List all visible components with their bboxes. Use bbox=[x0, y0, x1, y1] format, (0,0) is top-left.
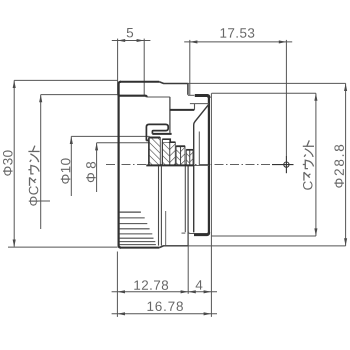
text 16.78 bbox=[148, 302, 183, 312]
tick left at x185 foot bbox=[182, 232, 186, 234]
text 12.78 bbox=[134, 280, 168, 290]
text 4 bbox=[196, 280, 203, 289]
underline tick bbox=[29, 200, 50, 202]
ring left face bbox=[119, 82, 121, 248]
male thread band bottom bbox=[194, 232, 209, 235]
flange face lower / interior vertical x188 bbox=[187, 166, 189, 246]
text φ10 bbox=[61, 158, 71, 183]
seat bold bbox=[170, 109, 194, 111]
lens element L3 bbox=[176, 146, 185, 165]
text φC mount bbox=[28, 146, 39, 206]
bore wall vertical bbox=[169, 97, 171, 133]
flange face top bbox=[187, 84, 189, 95]
bottom chamfer bbox=[159, 246, 163, 248]
interior vertical x185 lower bbox=[184, 166, 186, 233]
leader stem φ8 bbox=[96, 143, 98, 192]
text 5 bbox=[127, 28, 133, 37]
rear relief thin bbox=[210, 93, 212, 317]
bore wall verticals lower bbox=[158, 166, 160, 246]
leader line φ30 bbox=[14, 79, 117, 81]
inner bore line bbox=[147, 96, 170, 98]
lens element L4 bbox=[186, 150, 193, 166]
ring top edge bbox=[120, 81, 159, 83]
female thread bold bbox=[119, 96, 146, 98]
ledge bold bbox=[152, 133, 171, 135]
lens element L1 bbox=[149, 138, 160, 166]
extension top φ28.8 bbox=[188, 82, 346, 84]
text 17.53 bbox=[221, 28, 255, 38]
leader stem φ10 bbox=[70, 136, 72, 196]
dimension line 16.78 bbox=[112, 313, 217, 315]
text φ30 bbox=[3, 150, 13, 175]
extension bottom φ28.8 bbox=[188, 245, 346, 247]
extension bottom C mount bbox=[212, 235, 316, 237]
lens element L2 bbox=[162, 139, 175, 165]
extension line x188 bottom bbox=[187, 246, 189, 294]
ring bottom edge bbox=[120, 247, 159, 249]
extension line left of 17.53 bbox=[189, 40, 191, 95]
thin recess line bbox=[190, 103, 209, 105]
leader vertical C mount bbox=[315, 93, 317, 236]
foot curve into thread band bbox=[188, 231, 209, 234]
recess stub bbox=[194, 104, 196, 110]
center mark image plane bbox=[272, 156, 294, 173]
male thread band top bbox=[195, 96, 209, 99]
bold base under lens stack bbox=[146, 164, 193, 166]
extension line right of dim 5 bbox=[143, 39, 145, 96]
leader line φ10 bbox=[71, 135, 149, 137]
dimension line 5 bbox=[112, 40, 151, 42]
leader line φC mount bbox=[41, 94, 119, 96]
leader vertical φ28.8 bbox=[345, 83, 347, 246]
knurl lines bbox=[119, 212, 155, 245]
dimension line 17.53 bbox=[184, 41, 292, 43]
top chamfer bbox=[159, 82, 163, 84]
extension top C mount bbox=[212, 92, 316, 94]
cone diagonal upper bbox=[194, 104, 209, 232]
text C mount bbox=[303, 140, 314, 189]
step to thread top bbox=[188, 94, 195, 96]
hook bottom stub bbox=[146, 139, 152, 141]
leader line φ8 bbox=[97, 142, 150, 144]
extension line left of dim 5 bbox=[117, 39, 119, 96]
text φ28.8 bbox=[334, 145, 344, 188]
top mid silhouette bbox=[163, 83, 188, 85]
bottom mid silhouette bbox=[163, 245, 188, 247]
thin base continuation bbox=[194, 165, 209, 167]
extension line right of 17.53 / image plane bbox=[285, 40, 287, 156]
right wall bold bbox=[208, 97, 210, 234]
retaining ring hook bbox=[146, 124, 168, 140]
text φ8 bbox=[86, 162, 96, 182]
leader stem φ30 bbox=[13, 80, 15, 246]
extension line x117 bottom bbox=[116, 252, 118, 317]
bottom extension φ30 bbox=[8, 246, 118, 248]
dimension line 12.78 / 4 bbox=[112, 291, 217, 293]
leader stem φC mount bbox=[40, 95, 42, 229]
